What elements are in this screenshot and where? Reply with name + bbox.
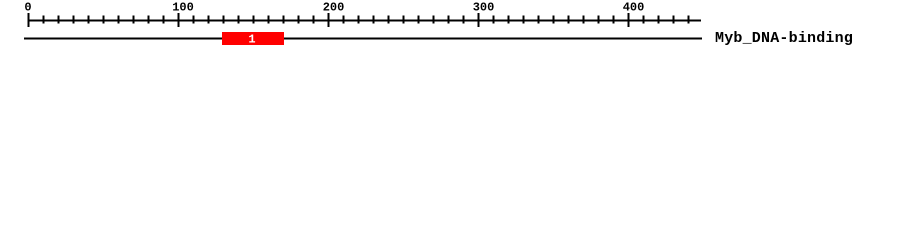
background xyxy=(0,0,900,58)
minor ticks every 10 residues xyxy=(43,16,45,24)
svg-text:300: 300 xyxy=(473,1,495,15)
svg-text:400: 400 xyxy=(623,1,645,15)
major tick 100 xyxy=(178,13,180,27)
major tick 300 xyxy=(478,13,480,27)
svg-text:0: 0 xyxy=(24,1,31,15)
svg-text:200: 200 xyxy=(323,1,345,15)
svg-text:1: 1 xyxy=(248,33,255,47)
ruler axis line xyxy=(24,13,702,40)
major tick 200 xyxy=(328,13,330,27)
domain box Myb_DNA-binding (red) xyxy=(222,32,284,45)
protein backbone line xyxy=(24,38,702,40)
protein domain graphic xyxy=(0,0,900,58)
svg-text:Myb_DNA-binding: Myb_DNA-binding xyxy=(715,30,853,47)
svg-text:100: 100 xyxy=(172,1,194,15)
major tick 0 xyxy=(28,13,30,27)
major tick 400 xyxy=(628,13,630,27)
